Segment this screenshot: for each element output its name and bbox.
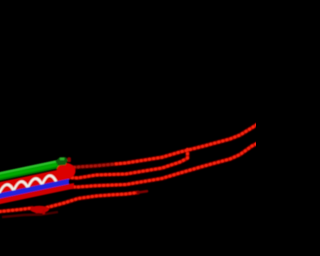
T4 fading tail [138,191,147,192]
light trails: mid red [0,125,257,212]
undercarriage blob [30,206,49,213]
blue band [0,179,69,200]
dark green roof tip [56,157,68,165]
dark red fringe lower-left [2,212,58,217]
nose nub [67,157,71,162]
red nose [57,163,76,179]
big red band (red1 + garland band) [0,167,70,194]
green roof [0,159,61,181]
white scalloped garland [0,174,56,194]
dim T1 near nose [64,164,112,168]
red band 2 [0,183,74,205]
train body (skewed stripes, slope -0.21) [0,157,74,205]
light trails: dark glow underlay [0,125,257,212]
light trails: bright beads [0,125,257,212]
